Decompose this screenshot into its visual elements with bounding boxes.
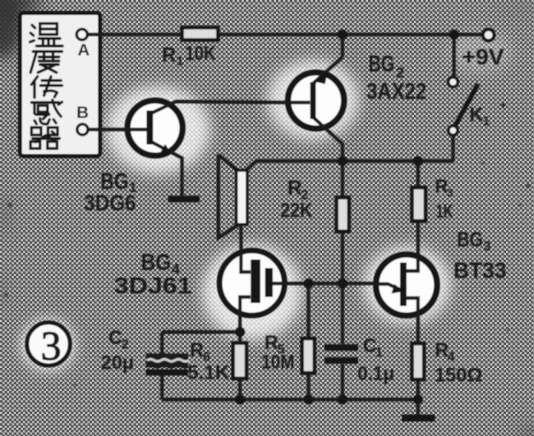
svg-text:10K: 10K bbox=[185, 43, 216, 65]
svg-text:5.1K: 5.1K bbox=[188, 363, 230, 384]
svg-text:BG: BG bbox=[457, 229, 483, 252]
svg-text:20μ: 20μ bbox=[101, 353, 134, 374]
svg-text:+: + bbox=[500, 100, 506, 112]
svg-text:1: 1 bbox=[483, 114, 490, 128]
svg-text:R: R bbox=[265, 333, 279, 354]
svg-text:150Ω: 150Ω bbox=[435, 366, 483, 387]
svg-text:+9V: +9V bbox=[462, 45, 504, 70]
svg-text:B: B bbox=[77, 103, 89, 122]
svg-text:R: R bbox=[162, 45, 177, 67]
svg-text:R: R bbox=[190, 341, 204, 362]
svg-text:3: 3 bbox=[41, 323, 62, 369]
svg-text:K: K bbox=[470, 105, 484, 126]
svg-text:BT33: BT33 bbox=[454, 258, 507, 283]
svg-text:1K: 1K bbox=[436, 202, 453, 222]
svg-text:22K: 22K bbox=[281, 200, 313, 222]
svg-text:1: 1 bbox=[177, 54, 184, 68]
svg-text:3DJ61: 3DJ61 bbox=[114, 273, 192, 299]
svg-text:BG: BG bbox=[369, 51, 395, 77]
svg-text:2: 2 bbox=[122, 337, 129, 352]
svg-text:10M: 10M bbox=[262, 353, 295, 374]
svg-text:C: C bbox=[109, 328, 123, 349]
svg-text:3DG6: 3DG6 bbox=[84, 191, 136, 216]
svg-text:A: A bbox=[78, 41, 90, 60]
svg-text:6: 6 bbox=[203, 349, 210, 364]
svg-text:1: 1 bbox=[376, 345, 383, 360]
svg-text:BG: BG bbox=[141, 249, 171, 275]
svg-text:3AX22: 3AX22 bbox=[367, 78, 427, 104]
svg-text:3: 3 bbox=[447, 188, 453, 200]
svg-text:4: 4 bbox=[448, 349, 456, 364]
svg-text:0.1μ: 0.1μ bbox=[358, 364, 395, 385]
svg-text:3: 3 bbox=[484, 239, 491, 254]
